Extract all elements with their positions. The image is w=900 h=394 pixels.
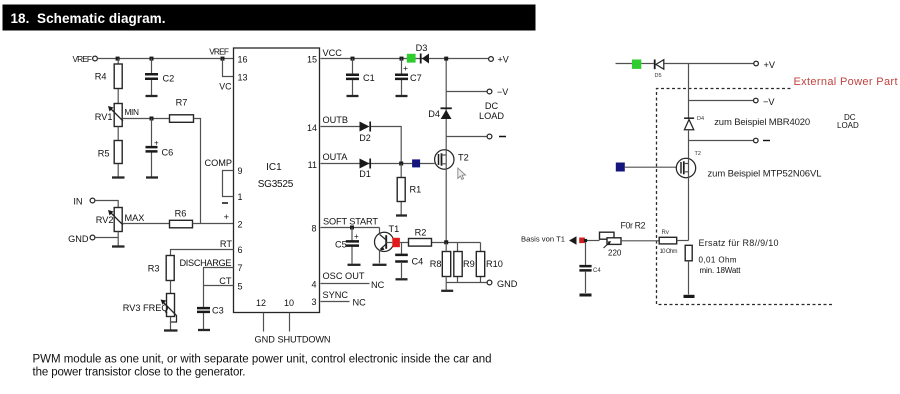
node navy square xyxy=(412,159,420,167)
wire bottom bus xyxy=(446,282,487,284)
wire pin 4 NC xyxy=(321,283,370,285)
capacitor C2 xyxy=(151,59,153,96)
svg-text:COMP: COMP xyxy=(204,158,232,168)
svg-text:14: 14 xyxy=(307,123,317,133)
wire R6 to pin 2 xyxy=(193,223,234,225)
svg-text:11: 11 xyxy=(308,160,317,170)
capacitor C5 xyxy=(351,228,353,264)
svg-text:F0r R2: F0r R2 xyxy=(621,221,646,231)
resistor Rv xyxy=(659,237,677,244)
svg-text:C3: C3 xyxy=(212,306,224,316)
terminal minus right xyxy=(754,138,759,143)
svg-text:−V: −V xyxy=(763,97,775,107)
terminal +V right xyxy=(754,61,759,66)
node C5 top xyxy=(350,226,354,230)
resistor R7 xyxy=(170,115,194,123)
node red square right xyxy=(579,238,585,244)
svg-text:zum Beispiel MBR4020: zum Beispiel MBR4020 xyxy=(714,117,810,128)
svg-text:+: + xyxy=(224,212,230,223)
capacitor C3 xyxy=(197,308,210,312)
resistor R4 xyxy=(117,59,119,104)
svg-text:13: 13 xyxy=(238,73,248,83)
wire VCC rail xyxy=(321,58,489,60)
wire VC jog xyxy=(223,59,234,77)
svg-text:SYNC: SYNC xyxy=(323,290,349,300)
svg-text:RV3: RV3 xyxy=(123,303,141,313)
diode D4 right xyxy=(684,117,694,119)
svg-text:D1: D1 xyxy=(359,169,371,179)
svg-text:T2: T2 xyxy=(458,153,469,163)
header bar xyxy=(3,5,536,31)
svg-text:T2: T2 xyxy=(695,151,701,157)
svg-text:IN: IN xyxy=(73,197,82,207)
ground C6 xyxy=(146,176,158,178)
node shunt rail xyxy=(444,240,448,244)
wire R8 leads xyxy=(445,243,447,290)
wire minus tap xyxy=(446,136,487,138)
svg-text:PWM module as one unit, or wit: PWM module as one unit, or with separate… xyxy=(33,354,492,366)
resistor 220 fixed xyxy=(600,232,615,239)
svg-text:NC: NC xyxy=(353,298,367,308)
diode D3 xyxy=(420,54,422,64)
wire pin7 loop xyxy=(204,268,234,308)
ground R1 xyxy=(396,214,407,216)
svg-text:NC: NC xyxy=(371,280,385,290)
svg-text:GND: GND xyxy=(255,335,276,345)
svg-text:4: 4 xyxy=(311,280,316,290)
svg-text:GND: GND xyxy=(68,234,89,244)
trimmer 220 xyxy=(607,238,621,245)
svg-text:VCC: VCC xyxy=(323,48,343,58)
wire right rail xyxy=(688,64,690,159)
wire GND to RV2 bottom xyxy=(95,232,118,247)
svg-text:+V: +V xyxy=(498,55,509,65)
svg-text:−V: −V xyxy=(497,87,508,97)
terminal IN xyxy=(90,198,95,203)
svg-text:+V: +V xyxy=(764,60,776,70)
svg-text:R10: R10 xyxy=(486,259,503,269)
svg-text:R3: R3 xyxy=(148,264,160,274)
wire -V tap xyxy=(446,91,487,93)
svg-text:D4: D4 xyxy=(697,116,704,122)
svg-text:2: 2 xyxy=(238,220,243,230)
ground C4 right xyxy=(580,294,592,297)
ground C3 xyxy=(198,329,210,331)
svg-text:3: 3 xyxy=(311,297,316,307)
terminal GND xyxy=(90,235,95,240)
svg-text:C2: C2 xyxy=(163,74,175,84)
terminal +V xyxy=(489,57,494,62)
wire OUTA xyxy=(321,163,435,165)
svg-text:VREF: VREF xyxy=(73,54,93,64)
svg-text:8: 8 xyxy=(311,224,316,234)
svg-text:R5: R5 xyxy=(98,149,110,159)
potentiometer RV3 FREQ xyxy=(167,294,175,317)
wire pin5 xyxy=(204,285,234,287)
node red square xyxy=(392,238,400,247)
ground C5 xyxy=(348,264,361,266)
svg-text:R2: R2 xyxy=(415,228,427,238)
node navy square right xyxy=(616,163,625,172)
resistor R2 xyxy=(400,242,481,244)
transistor T2 mosfet xyxy=(435,150,454,169)
node C7 xyxy=(400,57,404,61)
svg-text:0,01 Ohm: 0,01 Ohm xyxy=(699,256,737,265)
svg-text:T1: T1 xyxy=(389,224,400,234)
svg-text:R8: R8 xyxy=(430,259,442,269)
wire Rv to rail xyxy=(677,240,689,242)
potentiometer RV2 xyxy=(114,208,122,232)
svg-text:GND: GND xyxy=(497,279,518,289)
wire 220 to Rv xyxy=(621,240,659,242)
ground shunt xyxy=(441,290,453,292)
svg-text:FREQ: FREQ xyxy=(143,303,169,313)
svg-text:IC1: IC1 xyxy=(266,162,282,173)
node green square right xyxy=(632,60,641,69)
svg-text:Rv: Rv xyxy=(662,230,669,236)
node C1 xyxy=(351,57,355,61)
diode D2 xyxy=(360,122,370,132)
wire input xyxy=(616,63,632,65)
svg-text:C5: C5 xyxy=(335,240,347,250)
wire IN to RV2 xyxy=(95,201,118,208)
svg-text:OUTA: OUTA xyxy=(323,152,349,162)
svg-text:D2: D2 xyxy=(359,133,371,143)
terminal VREF xyxy=(93,56,98,61)
svg-text:C1: C1 xyxy=(363,73,375,83)
svg-text:16: 16 xyxy=(238,55,248,65)
svg-text:LOAD: LOAD xyxy=(837,121,859,130)
wire pin 3 NC xyxy=(321,301,350,303)
svg-text:OUTB: OUTB xyxy=(323,115,349,125)
svg-text:15: 15 xyxy=(307,55,317,65)
terminal GND right xyxy=(487,280,492,285)
resistor R5 xyxy=(117,127,119,178)
svg-text:C4: C4 xyxy=(593,268,601,274)
svg-text:Basis von T1: Basis von T1 xyxy=(521,235,565,244)
svg-text:C4: C4 xyxy=(412,257,424,267)
svg-text:+: + xyxy=(403,63,408,73)
wire OUTB xyxy=(321,126,360,128)
cursor xyxy=(458,168,466,180)
ground RV2 xyxy=(112,245,125,247)
svg-text:9: 9 xyxy=(238,166,243,176)
svg-text:the power transistor close to: the power transistor close to the genera… xyxy=(33,367,246,379)
svg-text:R4: R4 xyxy=(95,72,107,82)
svg-text:VREF: VREF xyxy=(209,47,229,57)
svg-text:12: 12 xyxy=(256,298,266,308)
svg-text:18. Schematic diagram.: 18. Schematic diagram. xyxy=(11,11,166,26)
capacitor C1 xyxy=(352,59,354,96)
svg-text:220: 220 xyxy=(608,249,622,258)
wire pin 8 xyxy=(321,227,380,229)
svg-text:10 Ohm: 10 Ohm xyxy=(660,249,678,255)
ground RV3 xyxy=(164,329,178,331)
label minus pin1 xyxy=(222,202,228,204)
terminal minus xyxy=(487,134,492,139)
node R4 top xyxy=(116,57,120,61)
svg-text:10: 10 xyxy=(284,298,294,308)
svg-text:RV1: RV1 xyxy=(95,112,113,122)
svg-text:D3: D3 xyxy=(416,43,428,53)
svg-text:VC: VC xyxy=(219,82,232,92)
resistor shunt xyxy=(685,245,692,260)
resistor R6 xyxy=(170,220,193,228)
svg-text:DISCHARGE: DISCHARGE xyxy=(180,258,232,268)
pin 10 stub xyxy=(289,313,291,332)
svg-text:Ersatz für R8//9/10: Ersatz für R8//9/10 xyxy=(699,238,779,248)
svg-text:C6: C6 xyxy=(162,148,174,158)
svg-text:min. 18Watt: min. 18Watt xyxy=(700,266,742,275)
wire RV3 bottom xyxy=(170,317,172,330)
svg-text:External Power Part: External Power Part xyxy=(794,76,898,88)
svg-text:+: + xyxy=(154,139,159,148)
wire gate right xyxy=(625,166,677,168)
svg-text:R7: R7 xyxy=(176,98,188,108)
svg-text:SG3525: SG3525 xyxy=(258,179,294,190)
transistor T1 xyxy=(379,228,381,234)
svg-text:1: 1 xyxy=(238,192,243,202)
terminal -V xyxy=(487,89,492,94)
ground R5 xyxy=(112,176,125,178)
svg-text:OSC OUT: OSC OUT xyxy=(323,271,365,281)
svg-text:6: 6 xyxy=(238,245,243,255)
svg-text:C7: C7 xyxy=(410,73,422,83)
svg-text:LOAD: LOAD xyxy=(479,111,504,121)
capacitor C7 xyxy=(401,59,403,96)
node green square xyxy=(407,54,416,63)
svg-text:DC: DC xyxy=(485,101,499,111)
ground T1 xyxy=(373,264,387,266)
wire RV2 wiper xyxy=(123,223,170,225)
wire D2 to OUTA xyxy=(371,127,401,164)
resistor R8 xyxy=(442,252,450,277)
svg-text:R1: R1 xyxy=(410,185,422,195)
node junction xyxy=(584,239,587,242)
arrow to T1 base xyxy=(569,236,577,244)
svg-text:R9: R9 xyxy=(463,259,475,269)
diode D5 xyxy=(654,60,656,70)
wire minus tap right xyxy=(689,140,754,142)
wire to +V xyxy=(664,63,754,65)
pin 12 stub xyxy=(263,313,265,332)
svg-text:RT: RT xyxy=(220,239,232,249)
wire VREF rail xyxy=(98,58,234,60)
resistor R10 xyxy=(480,243,482,283)
ground C1 xyxy=(347,95,359,97)
svg-text:D4: D4 xyxy=(428,109,440,119)
wire RT to R3 xyxy=(171,250,234,256)
svg-text:MIN: MIN xyxy=(125,107,140,117)
svg-text:CT: CT xyxy=(219,276,232,286)
resistor R3 xyxy=(166,256,174,281)
diode D1 xyxy=(360,159,370,169)
wire R7 to pin2 xyxy=(194,119,201,224)
wire vertical rail xyxy=(445,59,447,150)
ground C2 xyxy=(146,95,158,97)
svg-text:zum Beispiel MTP52N06VL: zum Beispiel MTP52N06VL xyxy=(708,169,822,180)
node VC jog xyxy=(221,57,225,61)
wire COMP loop pin9-pin1 xyxy=(223,171,234,197)
wire RV1 wiper xyxy=(123,118,170,120)
wire R3 to RV3 xyxy=(170,281,172,294)
svg-text:MAX: MAX xyxy=(125,213,145,223)
svg-text:D5: D5 xyxy=(655,73,662,79)
resistor R1 xyxy=(400,164,402,215)
wire -V tap right xyxy=(689,100,754,102)
ground C4 left xyxy=(396,278,408,280)
node OUTA/R1 xyxy=(399,162,403,166)
node C2 top xyxy=(150,57,154,61)
capacitor C4 right xyxy=(585,241,587,294)
wire red sq to 220 xyxy=(585,240,600,242)
node rail top xyxy=(444,57,448,61)
transistor T2 right xyxy=(676,158,695,177)
svg-text:SOFT START: SOFT START xyxy=(323,217,378,227)
terminal -V right xyxy=(754,98,759,103)
op IC1 SG3525 body xyxy=(234,48,320,313)
svg-text:7: 7 xyxy=(238,263,243,273)
ground shunt right xyxy=(684,295,695,298)
diode D4 xyxy=(441,107,452,109)
dashed box xyxy=(657,89,833,305)
wire xyxy=(641,63,654,65)
capacitor C4 left xyxy=(401,243,403,279)
svg-text:5: 5 xyxy=(238,282,243,292)
potentiometer RV1 xyxy=(114,104,122,127)
capacitor C6 xyxy=(151,119,153,178)
node C6 top xyxy=(150,117,154,121)
resistor R9 xyxy=(457,243,459,283)
ground C7 xyxy=(396,95,408,97)
svg-text:SHUTDOWN: SHUTDOWN xyxy=(278,335,331,345)
svg-text:R6: R6 xyxy=(175,209,187,219)
svg-text:RV2: RV2 xyxy=(96,215,114,225)
svg-text:+: + xyxy=(354,232,359,241)
